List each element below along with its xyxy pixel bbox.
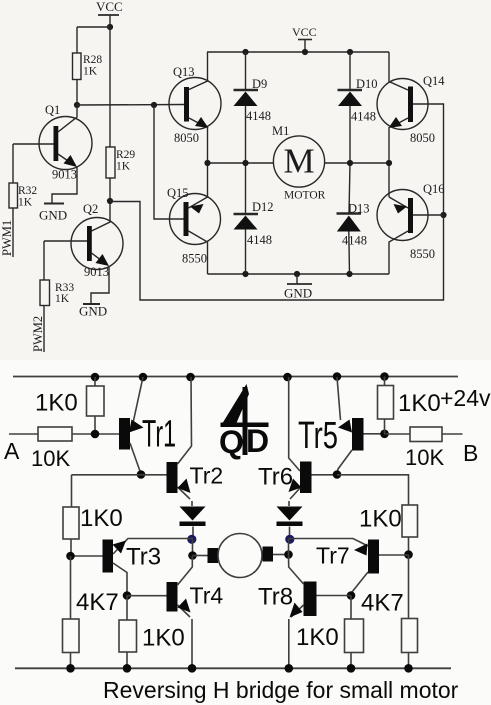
wire diode to motor-left: [192, 539, 194, 556]
resistor R33: [40, 241, 50, 352]
ground GND (Q1 emitter): [44, 203, 64, 205]
svg-text:Tr4: Tr4: [190, 583, 224, 609]
diode D13: [337, 163, 362, 274]
svg-text:1K0: 1K0: [296, 624, 339, 651]
svg-text:A: A: [4, 438, 20, 464]
wire diode to motor-right: [288, 539, 290, 555]
svg-text:Q15: Q15: [167, 186, 189, 200]
transistor Q1: [13, 105, 92, 203]
wire branch down to Q15 base: [154, 105, 184, 219]
transistor Tr8: [289, 555, 317, 669]
node Tr5 base junction: [380, 430, 389, 439]
svg-text:VCC: VCC: [96, 0, 123, 14]
node rail R5: [380, 372, 389, 381]
wire VCC down to R29: [109, 27, 111, 147]
svg-text:PWM1: PWM1: [0, 220, 14, 256]
resistor 1K0 (top left): [87, 377, 105, 434]
svg-text:B: B: [463, 440, 478, 466]
node A input wire: [9, 433, 38, 435]
label R28 value: [83, 54, 102, 78]
svg-text:1K: 1K: [18, 197, 33, 209]
resistor 4K7 (right): [402, 555, 418, 669]
transistor Tr4: [167, 556, 193, 669]
svg-text:R32: R32: [18, 185, 37, 197]
svg-text:9013: 9013: [52, 168, 77, 182]
svg-text:MOTOR: MOTOR: [284, 190, 326, 202]
svg-text:M: M: [283, 142, 314, 181]
node rail Tr1 emitter: [139, 373, 148, 382]
label R32 value: [18, 185, 37, 209]
node rail Tr5 emitter: [333, 372, 342, 381]
svg-text:Q13: Q13: [173, 65, 195, 79]
svg-text:D12: D12: [252, 200, 274, 214]
diode D12: [234, 163, 259, 274]
power VCC (bridge top): [298, 40, 312, 53]
svg-text:Q2: Q2: [83, 202, 98, 216]
svg-text:1K0: 1K0: [398, 390, 441, 417]
node Tr3 base junction: [66, 552, 75, 561]
svg-text:M1: M1: [272, 124, 289, 138]
svg-text:Tr1: Tr1: [142, 414, 176, 456]
node bottom rail 1K0-left: [123, 664, 132, 673]
transistor Tr5: [337, 377, 385, 475]
svg-text:Q: Q: [219, 424, 244, 460]
svg-text:4148: 4148: [247, 233, 272, 247]
node Q13/Q15 base branch: [151, 102, 157, 108]
node motor-right / Q14-Q16: [386, 160, 392, 166]
wire bridge bottom rail: [208, 273, 390, 275]
diode right (freewheel): [277, 507, 303, 539]
svg-text:1K0: 1K0: [80, 505, 123, 532]
svg-text:1K: 1K: [55, 293, 70, 305]
svg-text:Tr5: Tr5: [298, 415, 338, 457]
node Tr4 base junction: [123, 591, 132, 600]
svg-text:PWM2: PWM2: [31, 316, 45, 352]
node bottom rail D13: [346, 271, 352, 277]
label R33 value: [55, 282, 74, 305]
svg-text:Tr6: Tr6: [258, 464, 293, 491]
svg-text:Q1: Q1: [45, 103, 60, 117]
svg-text:4148: 4148: [246, 109, 271, 123]
wire Tr8 base: [317, 595, 352, 597]
svg-text:D13: D13: [348, 202, 370, 216]
node rail Tr2 collector: [186, 373, 195, 382]
node top rail VCC: [302, 49, 308, 55]
svg-text:1K0: 1K0: [359, 506, 402, 533]
svg-text:9013: 9013: [84, 265, 109, 279]
wire Tr6 base row to right column: [337, 475, 409, 505]
svg-text:R29: R29: [116, 149, 135, 161]
svg-text:4K7: 4K7: [361, 590, 404, 617]
node top rail D10: [347, 49, 353, 55]
node Tr6 base junction: [333, 470, 342, 479]
label R29 value: [116, 149, 135, 173]
node motor-right junction: [284, 550, 293, 559]
svg-text:Tr7: Tr7: [316, 543, 350, 569]
node bottom rail 4K7-left: [66, 664, 75, 673]
node VCC-left junction: [107, 24, 113, 30]
transistor Q16: [377, 163, 444, 274]
svg-text:Q16: Q16: [423, 182, 445, 196]
resistor 10K (right): [385, 427, 463, 442]
wire +24v top rail: [13, 376, 458, 378]
node top rail D9: [242, 49, 248, 55]
transistor Q2: [44, 201, 123, 304]
svg-text:8050: 8050: [174, 131, 199, 145]
node rail R1: [91, 373, 100, 382]
resistor 10K (left): [38, 427, 72, 441]
svg-text:8550: 8550: [410, 247, 435, 261]
node motor-left / Q13-Q15: [204, 160, 210, 166]
node rail Tr6 collector: [283, 373, 292, 382]
node bottom rail Tr4 emitter: [188, 664, 197, 673]
svg-text:VCC: VCC: [292, 25, 317, 39]
transistor Tr6: [289, 377, 338, 506]
resistor 1K0 (left mid): [63, 475, 79, 556]
node R29/Q2 collector junction: [107, 198, 113, 204]
svg-text:D10: D10: [356, 77, 378, 91]
node Tr1 collector junction: [137, 470, 146, 479]
wire Tr3 emitter row: [113, 539, 193, 555]
node bottom rail GND: [294, 271, 300, 277]
motor M1: [273, 136, 324, 187]
resistor 1K0 (bottom right): [345, 596, 364, 669]
svg-text:GND: GND: [79, 304, 107, 319]
resistor 1K0 (top right): [378, 377, 394, 434]
node Tr1 base junction: [91, 430, 100, 439]
svg-text:1K0: 1K0: [142, 625, 185, 652]
svg-text:+24v: +24v: [440, 385, 491, 411]
resistor R32: [9, 144, 18, 257]
ground GND (bridge): [287, 274, 312, 284]
node motor-left junction: [188, 551, 197, 560]
node bottom rail 1K0-right: [347, 664, 356, 673]
svg-text:Reversing H bridge for small m: Reversing H bridge for small motor: [103, 677, 459, 703]
wire motor right node: [325, 162, 389, 164]
logo 4QD: [219, 384, 269, 460]
transistor Tr2: [167, 377, 193, 506]
svg-text:4148: 4148: [351, 110, 376, 124]
node diode-left cathode (blue): [187, 535, 196, 544]
transistor Tr1: [119, 377, 144, 474]
wire motor left node: [208, 162, 274, 164]
svg-text:R28: R28: [83, 54, 102, 66]
svg-text:8050: 8050: [410, 131, 435, 145]
diode D9: [234, 52, 259, 163]
svg-text:Tr3: Tr3: [126, 544, 161, 571]
resistor 1K0 (bottom left): [119, 596, 137, 669]
wire VCC junction to R28 top: [77, 26, 110, 28]
node bottom rail D12: [242, 271, 248, 277]
wire 10K to Tr1 base: [72, 433, 119, 435]
transistor Tr7: [289, 539, 409, 596]
svg-text:1K: 1K: [116, 161, 131, 173]
wire base row to Q13: [77, 104, 184, 107]
svg-text:GND: GND: [39, 208, 67, 223]
svg-text:GND: GND: [284, 286, 312, 301]
wire bridge top rail: [207, 51, 389, 53]
resistor 4K7 (left): [63, 556, 80, 668]
svg-text:Tr2: Tr2: [190, 463, 224, 489]
transistor Q13: [169, 52, 221, 163]
wire Q2 collector to right bridge (base drive): [110, 104, 444, 300]
diode D10: [338, 52, 363, 163]
power VCC (left): [98, 15, 119, 27]
node bottom rail 4K7-right: [404, 664, 413, 673]
node diode-right cathode (blue): [285, 535, 294, 544]
wire 0v bottom rail: [15, 667, 451, 669]
svg-text:8550: 8550: [182, 252, 207, 266]
svg-text:1K0: 1K0: [35, 390, 78, 417]
diode left (freewheel): [180, 507, 206, 539]
node R28 bottom / Q1 collector: [74, 102, 80, 108]
node Q16 base tap: [440, 212, 446, 218]
ground GND (Q2 emitter): [83, 303, 100, 305]
resistor 1K0 (right mid): [402, 505, 418, 555]
node bottom rail Tr8 emitter: [285, 664, 294, 673]
resistor R28: [73, 27, 82, 105]
transistor Q15: [170, 163, 221, 274]
resistor R29: [106, 147, 115, 201]
svg-text:4148: 4148: [342, 234, 367, 248]
svg-text:Q14: Q14: [423, 74, 445, 88]
svg-text:D: D: [246, 423, 269, 459]
wire Tr4 base: [127, 595, 167, 597]
transistor Q14: [377, 52, 428, 163]
svg-text:1K: 1K: [83, 66, 98, 78]
node motor-right / D10-D13: [347, 160, 353, 166]
node Tr8 base junction: [347, 591, 356, 600]
node Tr7 base junction: [404, 550, 413, 559]
svg-text:Tr8: Tr8: [258, 584, 293, 611]
motor (bottom): [193, 534, 289, 578]
svg-text:D9: D9: [252, 77, 267, 91]
svg-text:10K: 10K: [405, 445, 444, 470]
transistor Tr3: [71, 540, 128, 596]
wire Tr1 collector row: [72, 474, 167, 476]
node motor-left / D9-D12: [242, 160, 248, 166]
svg-text:10K: 10K: [31, 446, 70, 471]
svg-text:4K7: 4K7: [76, 589, 119, 616]
